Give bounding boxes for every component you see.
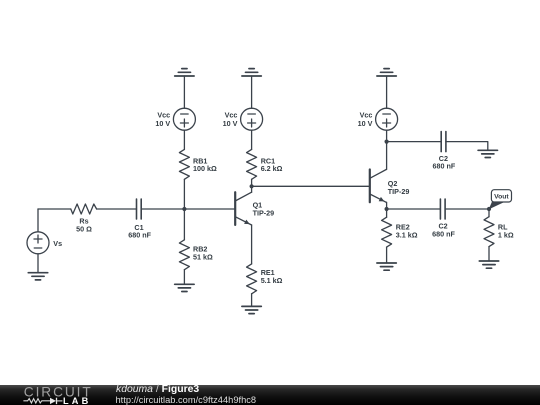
svg-text:LAB: LAB	[63, 395, 91, 405]
wire RB1 to node A	[183, 179, 185, 209]
capacitor C1	[136, 199, 138, 219]
wire Rs to C1	[97, 208, 137, 210]
node C junction dot	[385, 140, 389, 144]
svg-text:680 nF: 680 nF	[433, 162, 456, 171]
CircuitLab logo	[0, 385, 110, 405]
voltage source Vs	[27, 232, 49, 254]
resistor RB1	[179, 149, 189, 179]
wire node D to C2b	[387, 208, 441, 210]
svg-text:TIP-29: TIP-29	[388, 187, 410, 196]
ground below RL	[479, 260, 498, 262]
wire Q2 collector to node C	[386, 142, 388, 170]
wire C2a to ground elbow	[446, 142, 488, 151]
svg-text:10 V: 10 V	[155, 119, 170, 128]
wire Vcc1 to RB1	[183, 130, 185, 149]
svg-text:50 Ω: 50 Ω	[76, 224, 92, 233]
svg-text:Vs: Vs	[53, 239, 62, 248]
svg-text:10 V: 10 V	[223, 119, 238, 128]
wire RL to ground	[488, 247, 490, 261]
svg-text:680 nF: 680 nF	[128, 231, 151, 240]
node D junction dot	[385, 207, 389, 211]
ground Vcc1	[182, 68, 187, 70]
wire RC1 to node B	[251, 179, 253, 186]
wire Vcc3 to node C	[386, 130, 388, 142]
ground Vcc3	[384, 68, 389, 70]
svg-text:TIP-29: TIP-29	[253, 208, 275, 217]
wire gnd to Vcc3	[386, 76, 388, 108]
ground below Vs	[28, 272, 47, 274]
ground Vcc2	[249, 68, 254, 70]
wire node C to C2a	[387, 141, 442, 143]
wire C2b to node E	[445, 208, 489, 210]
voltage source Vcc3	[376, 108, 398, 130]
node E junction dot	[487, 207, 491, 211]
svg-text:3.1 kΩ: 3.1 kΩ	[396, 230, 418, 239]
capacitor C2 top	[440, 132, 442, 152]
wire RB2 to ground	[183, 270, 185, 285]
resistor RL	[484, 217, 494, 247]
voltage source Vcc2	[241, 108, 263, 130]
transistor Q2	[369, 170, 371, 203]
wire C1 to Q1 base	[141, 208, 235, 210]
wire Vs top	[37, 209, 39, 232]
node B junction dot	[250, 184, 254, 188]
resistor RL wire	[488, 209, 490, 217]
node A junction dot	[182, 207, 186, 211]
capacitor C2 bottom	[439, 199, 441, 219]
wire Vs to Rs	[38, 208, 71, 210]
svg-text:Vout: Vout	[494, 194, 509, 201]
ground below RE2	[377, 262, 396, 264]
wire RE1 to ground	[251, 294, 253, 307]
wire gnd to Vcc1	[183, 76, 185, 108]
svg-text:51 kΩ: 51 kΩ	[193, 252, 213, 261]
ground right of C2 top	[478, 149, 497, 151]
Vout flag	[489, 201, 504, 210]
svg-text:100 kΩ: 100 kΩ	[193, 164, 217, 173]
wire Vcc2 to RC1	[251, 130, 253, 149]
resistor RE1	[247, 264, 257, 294]
voltage source Vcc1	[173, 108, 195, 130]
svg-text:680 nF: 680 nF	[432, 230, 455, 239]
resistor RC1	[247, 149, 257, 179]
wire node B to Q2 base	[252, 185, 370, 187]
svg-text:1 kΩ: 1 kΩ	[498, 230, 514, 239]
svg-text:6.2 kΩ: 6.2 kΩ	[261, 164, 283, 173]
resistor Rs	[71, 204, 97, 214]
wire Q2 emitter to node D	[386, 202, 388, 209]
transistor Q1	[234, 192, 236, 225]
wire Q1 emitter to RE1	[251, 225, 253, 264]
svg-text:10 V: 10 V	[358, 119, 373, 128]
wire Vs bottom	[37, 254, 39, 273]
wire node A to RB2	[183, 209, 185, 240]
resistor RE2	[382, 217, 392, 247]
ground below RB2	[175, 283, 194, 285]
resistor RB2	[179, 240, 189, 270]
footer credit text	[116, 384, 199, 395]
svg-text:5.1 kΩ: 5.1 kΩ	[261, 276, 283, 285]
resistor RE2 wire	[386, 209, 388, 217]
wire gnd to Vcc2	[251, 76, 253, 108]
wire Q1 collector to node B	[251, 186, 253, 192]
wire RE2 to ground	[386, 247, 388, 263]
ground below RE1	[242, 305, 261, 307]
footer bar	[0, 385, 540, 405]
